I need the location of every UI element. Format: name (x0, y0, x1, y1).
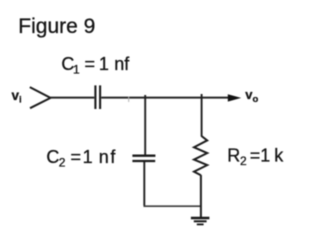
svg-text:f: f (110, 147, 116, 167)
svg-text:k: k (274, 145, 284, 165)
svg-text:1: 1 (83, 147, 93, 167)
svg-text:Figure 9: Figure 9 (18, 15, 95, 38)
svg-text:n: n (99, 147, 109, 167)
svg-text:nf: nf (114, 54, 130, 74)
svg-text:2: 2 (59, 156, 66, 170)
svg-text:=: = (250, 145, 261, 165)
svg-text:=: = (71, 147, 82, 167)
svg-text:R: R (227, 145, 240, 165)
svg-text:vo: vo (245, 87, 258, 105)
svg-text:1: 1 (99, 54, 109, 74)
svg-text:1: 1 (260, 145, 270, 165)
svg-text:vi: vi (12, 88, 22, 105)
svg-text:2: 2 (240, 154, 247, 168)
svg-text:1: 1 (73, 63, 80, 77)
svg-text:C: C (46, 147, 59, 167)
svg-text:=: = (85, 54, 96, 74)
